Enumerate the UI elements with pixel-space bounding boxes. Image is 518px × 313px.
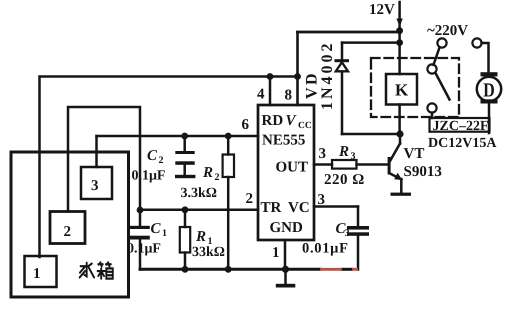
svg-text:2: 2 xyxy=(215,172,220,183)
svg-text:S9013: S9013 xyxy=(404,164,442,180)
svg-text:C: C xyxy=(147,148,158,164)
svg-text:VD: VD xyxy=(304,71,321,99)
svg-text:220 Ω: 220 Ω xyxy=(324,172,365,188)
svg-text:R: R xyxy=(338,144,349,160)
svg-text:3: 3 xyxy=(318,192,326,208)
svg-text:3: 3 xyxy=(351,151,356,162)
svg-text:0.1μF: 0.1μF xyxy=(127,242,161,257)
svg-text:TR: TR xyxy=(261,200,282,216)
svg-text:OUT: OUT xyxy=(276,160,309,176)
svg-text:VT: VT xyxy=(404,146,425,162)
svg-text:~220V: ~220V xyxy=(427,23,468,39)
svg-text:33kΩ: 33kΩ xyxy=(192,245,225,260)
svg-text:1: 1 xyxy=(162,228,167,239)
svg-text:2: 2 xyxy=(246,191,254,207)
svg-text:3: 3 xyxy=(319,146,327,162)
svg-text:R: R xyxy=(195,229,206,245)
svg-text:1: 1 xyxy=(33,266,41,282)
svg-text:8: 8 xyxy=(285,88,293,104)
svg-text:CC: CC xyxy=(298,121,312,131)
svg-text:R: R xyxy=(202,165,213,181)
svg-text:K: K xyxy=(395,81,409,100)
svg-text:3.3kΩ: 3.3kΩ xyxy=(181,186,218,201)
svg-text:C: C xyxy=(151,221,162,237)
svg-text:6: 6 xyxy=(242,117,250,133)
svg-text:V: V xyxy=(286,113,298,129)
svg-text:RD: RD xyxy=(262,113,284,129)
svg-text:DC12V15A: DC12V15A xyxy=(428,136,497,151)
svg-text:1: 1 xyxy=(208,236,213,247)
svg-text:GND: GND xyxy=(270,220,304,236)
svg-text:JZC–22F: JZC–22F xyxy=(433,119,489,134)
svg-text:D: D xyxy=(483,80,495,102)
svg-text:0.01μF: 0.01μF xyxy=(302,241,349,257)
svg-text:NE555: NE555 xyxy=(262,133,305,149)
svg-text:3: 3 xyxy=(345,228,350,239)
svg-text:1N4002: 1N4002 xyxy=(319,40,336,110)
svg-text:0.1μF: 0.1μF xyxy=(132,169,166,184)
svg-text:1: 1 xyxy=(272,245,280,261)
svg-text:2: 2 xyxy=(64,224,72,240)
svg-text:3: 3 xyxy=(91,178,99,194)
svg-text:4: 4 xyxy=(257,87,265,103)
svg-text:2: 2 xyxy=(159,155,164,166)
svg-text:VC: VC xyxy=(288,200,310,216)
svg-text:12V: 12V xyxy=(369,2,395,18)
